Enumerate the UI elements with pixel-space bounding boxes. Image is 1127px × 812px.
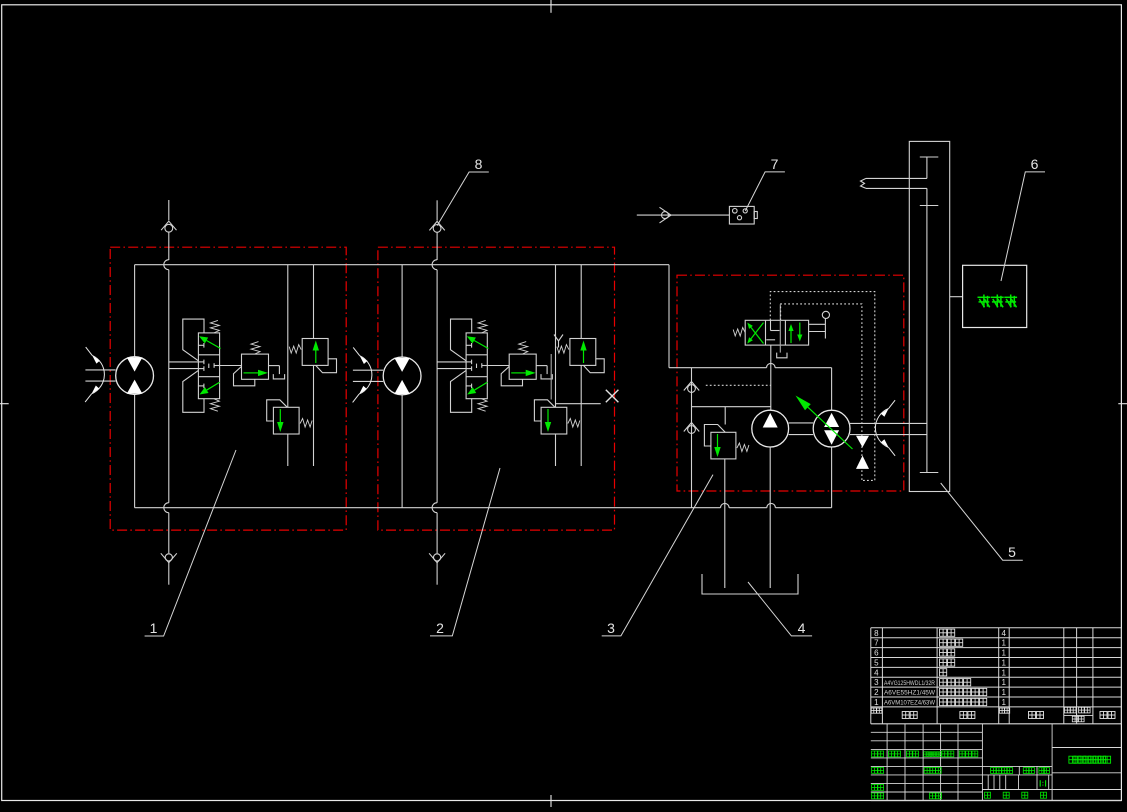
svg-text:3: 3 (607, 620, 615, 636)
svg-text:4: 4 (798, 620, 806, 636)
svg-text:1: 1 (150, 620, 158, 636)
svg-text:4: 4 (1001, 629, 1006, 638)
svg-text:4: 4 (874, 668, 879, 677)
svg-text:1: 1 (1001, 678, 1006, 687)
svg-text:1: 1 (1001, 639, 1006, 648)
svg-text:5: 5 (874, 658, 879, 667)
svg-text:7: 7 (874, 639, 879, 648)
svg-text:5: 5 (1008, 544, 1016, 560)
svg-text:1: 1 (874, 698, 879, 707)
svg-text:A6VM107EZ4/63W: A6VM107EZ4/63W (884, 700, 936, 707)
svg-text:2: 2 (436, 620, 444, 636)
svg-text:6: 6 (1031, 156, 1039, 172)
svg-text:8: 8 (874, 629, 879, 638)
svg-text:6: 6 (874, 649, 879, 658)
svg-text:1: 1 (1001, 668, 1006, 677)
svg-text:2: 2 (874, 688, 879, 697)
svg-text:1: 1 (1001, 649, 1006, 658)
svg-text:1: 1 (1001, 658, 1006, 667)
svg-text:1: 1 (1001, 688, 1006, 697)
svg-text:7: 7 (771, 156, 779, 172)
svg-text:3: 3 (874, 678, 879, 687)
svg-text:1: 1 (1001, 698, 1006, 707)
svg-text:A4VG125HWDL1/32R: A4VG125HWDL1/32R (884, 680, 935, 687)
svg-text:8: 8 (475, 156, 483, 172)
svg-text:A6VE55HZ1/45W: A6VE55HZ1/45W (884, 690, 936, 697)
